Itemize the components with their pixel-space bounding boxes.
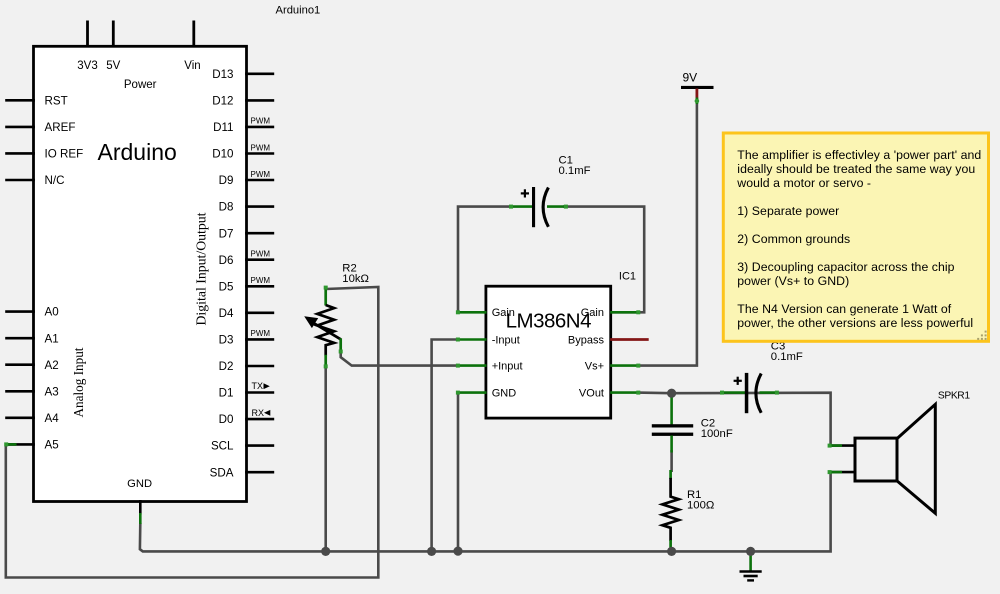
svg-text:Power: Power: [124, 79, 157, 91]
ground stem: [749, 552, 752, 571]
resistor R1 body: [662, 478, 678, 541]
svg-text:A4: A4: [45, 412, 60, 425]
capacitor C2 plates: [652, 424, 693, 427]
svg-text:SCL: SCL: [211, 440, 234, 453]
pin GND connected leg: [139, 513, 142, 524]
svg-text:3) Decoupling capacitor across: 3) Decoupling capacitor across the chip: [737, 260, 954, 274]
svg-text:PWM: PWM: [251, 329, 271, 338]
op-amp IC1 LM386N4 body: [486, 286, 611, 418]
pin D6: [245, 258, 274, 261]
svg-text:A0: A0: [45, 306, 59, 319]
pin A5: [5, 443, 35, 446]
svg-text:SPKR1: SPKR1: [938, 391, 970, 402]
capacitor C3 right leg: [760, 391, 778, 394]
svg-text:D0: D0: [219, 413, 234, 426]
svg-text:AREF: AREF: [45, 121, 76, 134]
svg-text:2) Common grounds: 2) Common grounds: [737, 232, 850, 246]
wire VOut to C3 to speaker: [637, 393, 831, 446]
svg-text:Digital Input/Output: Digital Input/Output: [194, 212, 209, 325]
svg-text:SDA: SDA: [210, 466, 234, 479]
junction R1/ground bus: [667, 547, 676, 556]
wire -Input to ground bus: [432, 340, 459, 552]
power supply 9V green terminal: [696, 98, 699, 105]
speaker pin top: [829, 444, 856, 447]
pin 3V3: [86, 21, 89, 48]
svg-text:N/C: N/C: [45, 174, 65, 187]
svg-text:D1: D1: [219, 387, 234, 400]
svg-text:RST: RST: [45, 94, 68, 107]
svg-text:TX: TX: [252, 381, 264, 391]
svg-text:Gain: Gain: [581, 307, 604, 319]
svg-text:PWM: PWM: [251, 276, 271, 285]
speaker pin bottom: [829, 471, 856, 474]
svg-text:D4: D4: [219, 307, 234, 320]
junction VOut/C2 node: [667, 389, 676, 398]
capacitor C1 plus sign: [521, 192, 529, 194]
pin Bypass (right): [610, 338, 649, 341]
pin Gain (right): [610, 311, 639, 314]
pin A3: [5, 390, 35, 393]
wire C2 link to R1: [670, 450, 673, 472]
pin A2: [5, 363, 35, 366]
pin VOut (right): [610, 391, 639, 394]
capacitor C2 top leg: [670, 395, 673, 425]
svg-text:+Input: +Input: [492, 361, 523, 373]
wire C1 loop left (Gain to C1): [458, 207, 513, 313]
svg-text:RX: RX: [252, 408, 265, 418]
svg-text:3V3: 3V3: [77, 60, 97, 72]
svg-text:9V: 9V: [682, 71, 697, 85]
svg-text:IC1: IC1: [619, 270, 636, 282]
capacitor C3 plus sign: [734, 380, 742, 382]
resistor R1 bottom leg: [669, 540, 672, 551]
svg-text:D7: D7: [219, 227, 234, 240]
svg-text:D9: D9: [219, 174, 234, 187]
capacitor C3 left leg: [721, 391, 746, 394]
svg-text:would a motor or servo -: would a motor or servo -: [736, 176, 871, 190]
junction IC GND/ground bus: [453, 547, 462, 556]
wire R2 wiper to +Input: [341, 352, 459, 366]
potentiometer R2 wiper arrow: [312, 322, 341, 340]
svg-text:5V: 5V: [106, 60, 120, 72]
potentiometer R2 10k top leg: [324, 287, 327, 305]
svg-text:D2: D2: [219, 360, 234, 373]
pin D8: [245, 205, 274, 208]
capacitor C3 straight plate: [745, 373, 749, 413]
svg-text:LM386N4: LM386N4: [506, 310, 591, 333]
svg-text:IO REF: IO REF: [45, 148, 84, 161]
svg-text:A3: A3: [45, 385, 59, 398]
svg-text:-Input: -Input: [492, 334, 520, 346]
wire ground bus from Arduino GND to speaker: [140, 472, 831, 552]
power supply 9V bar: [681, 86, 714, 89]
svg-text:100nF: 100nF: [701, 428, 733, 440]
junction R2-bottom/ground bus: [321, 547, 330, 556]
svg-text:0.1mF: 0.1mF: [771, 351, 803, 363]
svg-text:power (Vs+ to GND): power (Vs+ to GND): [737, 274, 849, 288]
pin IO REF: [5, 152, 35, 155]
pin GND (left): [458, 391, 487, 394]
capacitor C1 curved plate: [543, 188, 548, 227]
svg-text:D8: D8: [219, 201, 234, 214]
wire net A5 to R2 top: [6, 287, 379, 578]
pin +Input (left): [458, 364, 487, 367]
pin D3: [245, 338, 274, 341]
svg-text:PWM: PWM: [251, 170, 271, 179]
svg-text:A5: A5: [45, 439, 59, 452]
resistor R1 top leg: [669, 470, 672, 479]
svg-text:D5: D5: [219, 280, 234, 293]
pin A5 connected leg: [5, 443, 16, 446]
speaker SPKR1 body: [855, 438, 897, 481]
pin Gain (left): [458, 311, 487, 314]
pin A4: [5, 416, 35, 419]
pin AREF: [5, 126, 35, 129]
pin D10: [245, 152, 274, 155]
pin A0: [5, 310, 35, 313]
svg-text:1) Separate power: 1) Separate power: [737, 204, 839, 218]
potentiometer R2 bottom leg: [324, 355, 327, 368]
svg-text:Gain: Gain: [492, 307, 515, 319]
pin D4: [245, 311, 274, 314]
svg-text:100Ω: 100Ω: [687, 499, 714, 511]
svg-text:Bypass: Bypass: [568, 334, 605, 346]
svg-text:A2: A2: [45, 359, 59, 372]
svg-text:The N4 Version can generate 1: The N4 Version can generate 1 Watt of: [737, 302, 952, 316]
capacitor C1 right leg: [547, 205, 566, 208]
svg-text:Vin: Vin: [184, 60, 200, 72]
pin GND (Arduino): [139, 500, 142, 515]
svg-text:GND: GND: [127, 478, 152, 490]
svg-text:The amplifier is effectivley a: The amplifier is effectivley a 'power pa…: [737, 148, 981, 162]
pin SDA: [245, 471, 274, 474]
potentiometer R2 zigzag: [317, 305, 334, 356]
note resize grip: [977, 331, 986, 340]
wire IC GND to ground bus: [457, 393, 460, 552]
svg-text:D3: D3: [219, 334, 234, 347]
pin D7: [245, 232, 274, 235]
svg-text:power, the other versions are: power, the other versions are less power…: [737, 316, 973, 330]
pin D1: [245, 391, 274, 394]
note box: [723, 133, 988, 341]
pin Vs+ (right): [610, 364, 639, 367]
svg-text:VOut: VOut: [579, 388, 604, 400]
svg-text:A1: A1: [45, 332, 59, 345]
pin D11: [245, 126, 274, 129]
pin RST: [5, 99, 35, 102]
pin 5V: [112, 21, 115, 48]
pin D0: [245, 418, 274, 421]
pin Vin: [192, 21, 195, 48]
potentiometer R2 wiper leg: [339, 338, 342, 352]
svg-text:D13: D13: [212, 68, 233, 81]
svg-text:Arduino: Arduino: [98, 139, 177, 165]
svg-text:Vs+: Vs+: [585, 361, 604, 373]
wire 9V to Vs+: [638, 100, 697, 366]
wire C1 loop right (C1 to Gain): [563, 207, 644, 313]
svg-text:Analog Input: Analog Input: [71, 347, 86, 417]
capacitor C1 straight plate: [532, 187, 535, 227]
svg-text:10kΩ: 10kΩ: [342, 273, 369, 285]
pin A1: [5, 337, 35, 340]
svg-text:ideally should be treated the: ideally should be treated the same way y…: [737, 162, 975, 176]
svg-text:PWM: PWM: [251, 250, 271, 259]
junction -Input/ground bus: [427, 547, 436, 556]
speaker SPKR1 horn: [896, 404, 935, 513]
pin SCL: [245, 444, 274, 447]
pin D9: [245, 179, 274, 182]
svg-text:D6: D6: [219, 254, 234, 267]
svg-text:PWM: PWM: [251, 117, 271, 126]
pin D12: [245, 99, 274, 102]
pin N/C: [5, 179, 35, 182]
wire R2 bottom to ground bus: [324, 367, 327, 552]
power supply 9V red stem: [696, 89, 699, 101]
ground bars: [740, 570, 762, 573]
capacitor C3 curved plate: [756, 374, 761, 413]
pin -Input (left): [458, 338, 487, 341]
pin D13: [245, 73, 274, 76]
svg-text:PWM: PWM: [251, 143, 271, 152]
Arduino Arduino1 body: [34, 46, 247, 501]
svg-text:Arduino1: Arduino1: [276, 5, 321, 17]
capacitor C2 bottom leg: [670, 436, 673, 453]
pin D2: [245, 365, 274, 368]
svg-text:GND: GND: [492, 388, 517, 400]
capacitor C1 left leg: [510, 205, 533, 208]
svg-text:D12: D12: [212, 95, 233, 108]
svg-text:0.1mF: 0.1mF: [559, 165, 591, 177]
svg-text:D10: D10: [212, 148, 233, 161]
svg-text:D11: D11: [213, 121, 233, 134]
junction ground symbol/bus: [746, 547, 755, 556]
pin D5: [245, 285, 274, 288]
